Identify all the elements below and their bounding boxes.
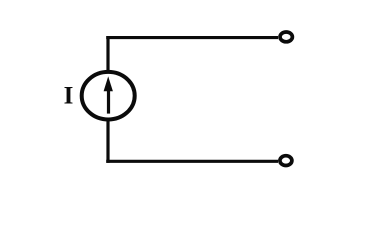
- wire left vertical lower (current source to bottom rail): [106, 120, 109, 163]
- wire top horizontal: [106, 36, 278, 39]
- wire bottom horizontal: [106, 160, 278, 163]
- svg-text:I: I: [64, 82, 74, 109]
- current source arrow: [104, 76, 113, 113]
- current source I (circle): [82, 72, 135, 120]
- wire left vertical upper (top rail to current source): [106, 36, 109, 72]
- terminal top-right: [280, 32, 292, 42]
- terminal bottom-right: [280, 156, 292, 166]
